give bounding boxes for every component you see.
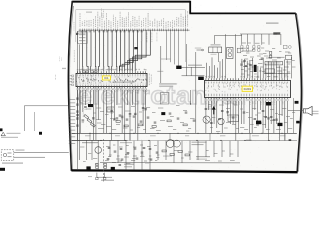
junction dot at 190.7 104 [190,103,191,104]
page border step at x=190 [189,1,191,13]
vertical wire x=225.7 [225,34,227,78]
vertical wire x=160.8 [160,46,162,83]
bus tie verticals [90,133,285,140]
audio out wire to connector [288,110,303,112]
left edge scan shadow [70,6,74,170]
wire y=75.8 to IC2 [182,75,205,77]
label text at x=88 y=12 [86,12,92,13]
scatter components mid-left [119,114,122,116]
horizontal bus y=140.4 [72,139,297,141]
diagonal resistor chain [84,115,89,119]
wire bundle bus to IC1 [83,30,121,71]
wire y=35.6 top right of mid [214,35,242,37]
bus y=73.5 above IC2 [264,73,290,75]
component column x=270 y51-61 [269,52,271,55]
page border bottom edge [71,170,297,172]
IC1 internal mid structures [77,76,147,85]
wires dropping to IC2 from above [207,57,288,78]
top-right bus wire y=34 [240,33,277,35]
marks right of SECAM row [246,140,252,141]
IC2 bottom pin pads [205,99,206,101]
black label left margin [39,132,42,135]
wire bundle below IC2 [206,101,288,140]
black up arrow (flyback note) [212,106,216,110]
pin number row above IC1 [81,69,82,70]
IC1 internal part-name text [113,82,135,83]
extra caps bottom band [107,158,110,160]
power source caption [2,162,23,163]
small component column right of T1 [237,48,241,53]
pin label smudges below IC2 pads [206,102,208,105]
small label x157 y71 [157,71,163,72]
page border left edge (bowed) [68,1,72,171]
wire x=291.5 down right [291,57,293,78]
vertical wire x=186.5 [186,44,188,76]
resistor pairs above bottom border [96,163,99,165]
bottom text scatter [80,147,84,148]
left margin marks upper [73,22,75,31]
black label box 1 [266,102,271,106]
svg-text:IC201: IC201 [244,87,252,91]
page border top-right section [189,12,295,14]
extra bottom band smudges [106,146,110,147]
wire bundle below IC1 [78,90,146,140]
capacitors below IC2 [205,108,208,110]
AC input dashed box [1,150,14,161]
wire x=280.9 down [280,34,282,45]
left rail wires [76,31,78,140]
black wire label at x119 y47 [134,47,137,49]
scanned TV chassis schematic page [0,0,320,183]
top-right bus drops [242,34,269,45]
black label box 2 [256,121,261,125]
stepped wire bundle from upper right to IC1 [120,30,151,71]
vertical wire x=235.7 [235,34,237,78]
IC2 body [205,81,291,98]
extra scatter text top-right [242,48,246,49]
tuner bracket text below bus left end [79,33,86,34]
top-right title text [266,22,279,24]
vertical wire x=195.8 [195,52,197,133]
wires below border [96,173,98,178]
wires from bus to horiz-drive section [167,30,179,67]
delay line input node circle [202,49,204,51]
AC input wires [14,151,69,153]
svg-text:IC1: IC1 [104,76,109,80]
scatter text top-right dense zone [243,55,247,56]
IC1 top inner pin numbers [78,76,146,77]
VO VS dark label [273,32,280,34]
IC2 top internal pin structures [206,82,288,84]
taller label text above x=100 [101,9,103,17]
horiz drive wire right of TP [182,66,206,68]
label text left of border y75 [55,75,57,80]
scatter text mid-left [96,108,101,109]
left margin ladder rungs [69,100,75,144]
vertical label columns x 141-158 [141,33,143,42]
net ref text row below bus [81,31,83,32]
IC2 internal dots [204,89,207,92]
IC1 body TDA8361 [76,73,147,86]
TP label black box left of horiz drive [176,66,181,69]
video delay line box [209,47,222,53]
black label on border left [86,166,90,169]
bottom text cluster right [192,142,207,143]
IC1 top internal pin marks [78,74,146,76]
page border top-left section [72,1,190,3]
IC2 interior pin-block texts [208,83,210,89]
dashed isolation line [103,139,105,182]
junction dots on buses [89,133,90,134]
IC2 highlighted reference [242,86,252,91]
IC1 bottom pin ticks and pads [78,87,146,89]
wire into left margin [24,105,68,107]
text below border [101,180,114,181]
black label box mid-left [88,104,93,107]
inner margin line vertical x=185.5 [184,10,186,62]
bottom resistor boxes [162,150,166,152]
black mark left end of bus [76,33,78,35]
scan noise dots [70,4,298,169]
black label at left edge y168 [0,168,5,171]
+B label near border [62,68,66,69]
small box right x286 [286,55,292,59]
horizontal tie at y59 left of TP [161,58,171,60]
component marks below border [96,178,99,180]
IC1 bottom pin pads [77,88,78,90]
resistor pairs top-right [241,46,243,48]
SECAM block box [228,115,239,122]
pin label smudges below IC1 pads [85,89,87,92]
small caps in top-right zone [243,60,246,62]
IC2 bottom pin ticks [206,98,288,100]
IC2 internal mid structures [207,83,287,91]
right margin vertical wire [292,98,294,133]
IC1 interior left pin-block texts [79,75,81,83]
bottom bus y=162.7 [100,162,240,164]
wire from delay line down [218,53,220,62]
horizontal bus y=133.3 [72,132,297,134]
IC1 right side vertical type label [148,74,150,86]
audio text above bottom [82,142,98,143]
crystal X1 box and circle [283,45,287,49]
chassis note text [159,83,177,84]
scatter text below IC2 zone [210,127,213,128]
earphone connector symbol [303,106,312,115]
inner margin line top [76,9,186,11]
bottom component chain caps [108,147,111,149]
transistor Q circle below IC2 [218,118,224,124]
bus label smudges [85,135,91,136]
right edge scan shadow [297,15,303,170]
input box upper-left [78,32,88,44]
horizontal tie wires above IC2 [269,56,285,58]
IC2 top pin name smudges above body [205,76,207,78]
vertical text left column [73,50,75,62]
inner margin line vertical left [75,10,77,42]
IC1 highlighted reference IC1 [102,76,110,80]
top net-name bus wire [79,29,190,31]
warning triangle note [1,132,5,136]
black label on border right [111,167,115,170]
black label box x161 [161,112,165,115]
IC1 top pin name smudges above body [77,69,79,71]
transistor circle bottom-left [95,147,102,154]
black TP label left of IC2 [198,77,204,80]
electrolytic cap black body [254,65,257,72]
component box left of watermark o [160,93,169,104]
IC1 left side pads [72,75,74,77]
bottom wires verticals [77,141,238,171]
IC2 top pin ticks [206,78,288,80]
black label at left edge y128 [0,128,3,131]
scatter resistor boxes mid-left [116,121,120,123]
4.5V box [107,107,114,112]
rotated net-name text smudges [79,13,81,26]
IF transformer T1 [227,48,233,59]
black label box right edge 2 [296,121,299,124]
black label box 3 [278,123,283,126]
net label comb ticks above and below bus [80,29,188,32]
left rail components [76,97,79,99]
black label box right edge 1 [295,101,299,104]
trimmer circle [203,116,210,123]
wide flat box (IF filter) [265,62,283,65]
IC1 top pin ticks [78,71,146,73]
capacitor row below IC1 [76,114,79,116]
small box below filter [265,69,275,73]
IC1 extra inner row [83,79,146,82]
transistor pair circles [166,140,174,148]
page scan background tint [68,2,301,172]
page border right edge (bowed) [296,13,302,171]
IC1 bottom inner pin numbers [78,83,146,84]
series resistor row above IC1 (inline) [83,71,86,73]
vertical wire x=190.7 [190,90,192,104]
vertical wire x=191 [190,67,192,76]
